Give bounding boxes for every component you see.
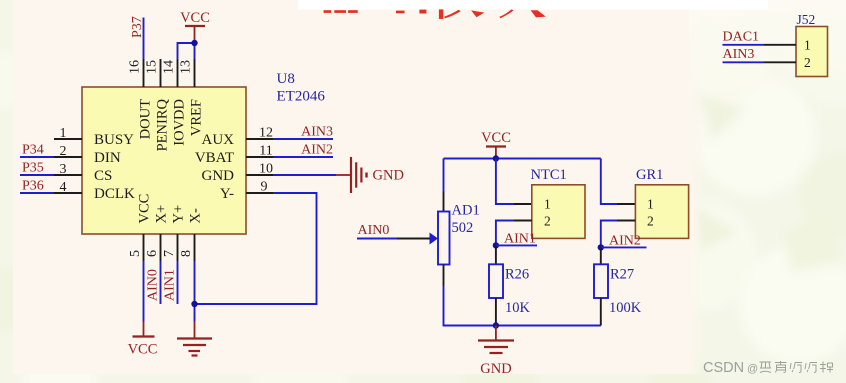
- svg-text:AUX: AUX: [202, 132, 235, 148]
- svg-text:11: 11: [259, 144, 272, 159]
- GR1 pin1 stub: [617, 203, 635, 205]
- ground earth (left): [177, 322, 212, 356]
- pin 8 stub: [194, 234, 196, 261]
- svg-text:12: 12: [259, 126, 273, 141]
- svg-text:502: 502: [452, 220, 474, 236]
- svg-text:1: 1: [60, 126, 67, 141]
- pin 11 stub: [246, 156, 273, 158]
- svg-text:BUSY: BUSY: [94, 132, 134, 148]
- svg-text:P34: P34: [22, 143, 44, 158]
- svg-text:6: 6: [145, 250, 160, 257]
- svg-text:J52: J52: [797, 12, 816, 27]
- svg-text:14: 14: [162, 60, 177, 74]
- svg-text:GND: GND: [373, 168, 404, 184]
- wire AIN3: [273, 138, 333, 140]
- svg-text:Y+: Y+: [171, 205, 187, 224]
- wire pin5 to VCC bottom: [143, 261, 145, 322]
- junction dot AIN2: [598, 244, 604, 250]
- wire top rail: [444, 158, 601, 160]
- pin 2 stub: [54, 156, 82, 158]
- R27 top pin: [600, 247, 602, 264]
- svg-text:R26: R26: [505, 267, 529, 283]
- wire pin14 to VCC junction: [178, 43, 195, 59]
- GR1 pin2 stub: [617, 220, 635, 222]
- svg-text:VCC: VCC: [128, 342, 158, 358]
- svg-text:PENIRQ: PENIRQ: [155, 98, 171, 151]
- pin 1 stub: [54, 138, 82, 140]
- power VCC (bottom, inverted): [128, 322, 158, 358]
- wire NTC1 pin2 to AIN1 node: [496, 221, 514, 246]
- svg-text:16: 16: [128, 60, 143, 74]
- wire rail to AD1: [443, 159, 445, 192]
- svg-text:ET2046: ET2046: [277, 89, 326, 105]
- pin 15 stub: [160, 59, 162, 87]
- wire DAC1: [723, 44, 765, 46]
- R26 bottom pin: [495, 298, 497, 326]
- watermark CSDN: [703, 360, 758, 376]
- wire AIN1 stub (pin7): [177, 261, 179, 304]
- pin 13 stub: [194, 59, 196, 87]
- svg-text:GND: GND: [202, 168, 235, 184]
- AD1 bottom pin: [443, 265, 445, 286]
- svg-text:VCC: VCC: [137, 194, 153, 224]
- AD1 top pin: [443, 192, 445, 212]
- power GND (bars symbol): [336, 157, 404, 193]
- thermistor NTC1 body: [532, 185, 585, 239]
- svg-text:DCLK: DCLK: [94, 186, 135, 202]
- svg-text:DOUT: DOUT: [138, 99, 154, 139]
- svg-text:1: 1: [804, 38, 811, 53]
- svg-text:AIN1: AIN1: [504, 232, 536, 247]
- svg-text:DIN: DIN: [94, 150, 121, 166]
- svg-text:2: 2: [544, 214, 551, 229]
- wire AIN2 label stub: [601, 246, 647, 248]
- wire P34: [20, 156, 54, 158]
- svg-text:2: 2: [647, 214, 654, 229]
- pin 12 stub: [246, 138, 273, 140]
- ground earth (right): [478, 326, 514, 378]
- junction dot pin8/pin9/gnd: [191, 301, 197, 307]
- R27 bottom pin: [600, 298, 602, 326]
- svg-text:DAC1: DAC1: [723, 30, 760, 45]
- svg-text:Y-: Y-: [220, 186, 234, 202]
- svg-text:VREF: VREF: [189, 99, 205, 136]
- svg-text:3: 3: [60, 162, 67, 177]
- svg-text:13: 13: [179, 60, 194, 74]
- wire pin9 loop: [195, 193, 317, 304]
- svg-text:AIN2: AIN2: [609, 234, 641, 249]
- svg-text:1: 1: [647, 197, 654, 212]
- svg-text:100K: 100K: [609, 300, 642, 316]
- power VCC (mid): [481, 130, 511, 159]
- svg-text:10K: 10K: [505, 300, 531, 316]
- title red fragments (cropped heading): [324, 9, 546, 19]
- power VCC (top): [180, 10, 210, 43]
- junction dot AIN1: [493, 242, 499, 248]
- svg-text:4: 4: [60, 180, 67, 195]
- pin 7 stub: [177, 234, 179, 261]
- svg-text:P35: P35: [22, 161, 44, 176]
- svg-text:NTC1: NTC1: [531, 167, 567, 183]
- pin 14 stub: [177, 59, 179, 87]
- svg-text:AIN3: AIN3: [723, 47, 755, 62]
- svg-text:2: 2: [804, 55, 811, 70]
- svg-text:CS: CS: [94, 168, 112, 184]
- svg-text:AD1: AD1: [452, 203, 480, 219]
- wire pin8 down: [194, 261, 196, 322]
- wire AIN2: [273, 156, 333, 158]
- wire AD1 to bottom rail: [444, 286, 496, 326]
- svg-text:AIN1: AIN1: [162, 269, 177, 301]
- NTC1 pin2 stub: [514, 220, 532, 222]
- resistor R26 body: [489, 264, 503, 298]
- junction dot VCC rail: [493, 155, 499, 161]
- svg-text:VCC: VCC: [481, 130, 511, 146]
- pin 9 stub: [246, 192, 273, 194]
- svg-text:AIN0: AIN0: [358, 223, 390, 238]
- top-right pale wash: [689, 0, 846, 100]
- pin 10 stub: [246, 174, 273, 176]
- resistor R27 body: [594, 264, 608, 298]
- wire P35: [20, 174, 54, 176]
- svg-text:8: 8: [179, 250, 194, 257]
- svg-text:P36: P36: [22, 179, 44, 194]
- J52 pin2 stub: [764, 61, 796, 63]
- wire bottom rail: [444, 325, 601, 327]
- svg-text:IOVDD: IOVDD: [172, 99, 188, 146]
- wire VCC junction to NTC1 pin1: [496, 159, 514, 205]
- svg-text:VBAT: VBAT: [195, 150, 234, 166]
- svg-text:P37: P37: [130, 16, 145, 38]
- svg-text:X+: X+: [154, 205, 170, 224]
- wire pin10 to GND: [273, 174, 336, 176]
- svg-text:15: 15: [145, 60, 160, 74]
- R26 top pin: [495, 245, 497, 264]
- svg-text:2: 2: [60, 144, 67, 159]
- svg-text:AIN3: AIN3: [301, 125, 333, 140]
- svg-text:7: 7: [162, 250, 177, 257]
- wire AIN3 to J52: [723, 61, 765, 63]
- junction dot (pin13/VCC): [191, 40, 197, 46]
- svg-text:CSDN: CSDN: [703, 360, 744, 376]
- AD1 wiper arrow: [430, 233, 439, 245]
- svg-text:GND: GND: [480, 361, 511, 377]
- IC U8 body: [82, 87, 246, 234]
- svg-text:AIN0: AIN0: [145, 269, 160, 301]
- pin 4 stub: [54, 192, 82, 194]
- connector J52 body: [796, 27, 828, 77]
- J52 pin1 stub: [764, 44, 796, 46]
- wire GR1 pin2 to AIN2 node: [601, 221, 617, 248]
- NTC1 pin1 stub: [514, 203, 532, 205]
- pin 5 stub: [143, 234, 145, 261]
- watermark CJK glyph blocks: [760, 361, 834, 373]
- wire AIN1 label stub: [496, 244, 537, 246]
- photoresistor GR1 body: [635, 185, 688, 239]
- pin 16 stub: [143, 59, 145, 87]
- svg-text:R27: R27: [610, 267, 634, 283]
- svg-text:AIN2: AIN2: [301, 143, 333, 158]
- svg-text:10: 10: [259, 162, 273, 177]
- wire AIN0: [357, 238, 397, 240]
- svg-text:@: @: [747, 363, 758, 375]
- svg-text:GR1: GR1: [636, 167, 663, 183]
- schematic white sheet: [13, 0, 689, 374]
- wire P37 to pin16: [143, 18, 145, 60]
- title white band: [298, 0, 768, 10]
- svg-text:9: 9: [261, 180, 268, 195]
- wire rail to GR1 pin1: [601, 159, 617, 205]
- junction dot bottom rail: [493, 322, 499, 328]
- svg-text:5: 5: [128, 250, 143, 257]
- potentiometer AD1 body: [438, 212, 450, 265]
- wire P36: [20, 192, 54, 194]
- AD1 wiper pin wire: [397, 238, 430, 240]
- pin 3 stub: [54, 174, 82, 176]
- svg-text:U8: U8: [277, 71, 295, 87]
- svg-text:VCC: VCC: [180, 10, 210, 26]
- svg-text:1: 1: [544, 197, 551, 212]
- wire AIN0 stub (pin6): [160, 261, 162, 304]
- svg-text:X-: X-: [188, 208, 204, 223]
- pin 6 stub: [160, 234, 162, 261]
